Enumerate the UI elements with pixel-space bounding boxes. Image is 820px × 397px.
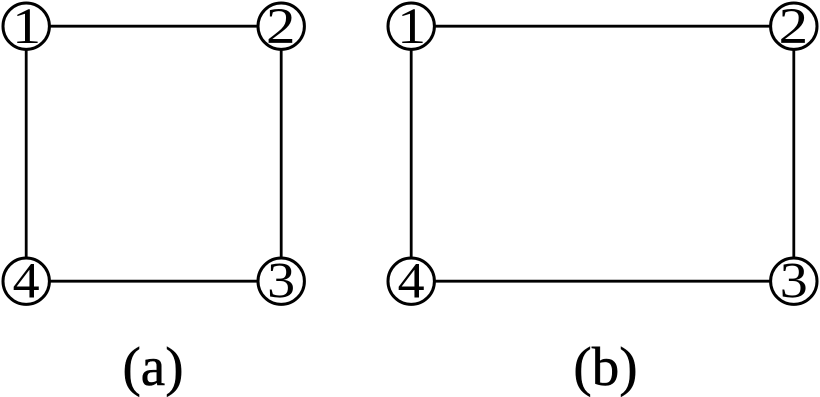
svg-text:2: 2	[779, 0, 809, 54]
svg-text:4: 4	[13, 253, 40, 309]
svg-text:(a): (a)	[122, 336, 183, 397]
svg-text:1: 1	[397, 0, 426, 54]
svg-text:2: 2	[266, 0, 296, 54]
svg-text:3: 3	[780, 253, 808, 309]
svg-text:3: 3	[267, 253, 295, 309]
svg-text:(b): (b)	[573, 336, 637, 397]
svg-text:1: 1	[12, 0, 41, 54]
svg-text:4: 4	[398, 253, 425, 309]
